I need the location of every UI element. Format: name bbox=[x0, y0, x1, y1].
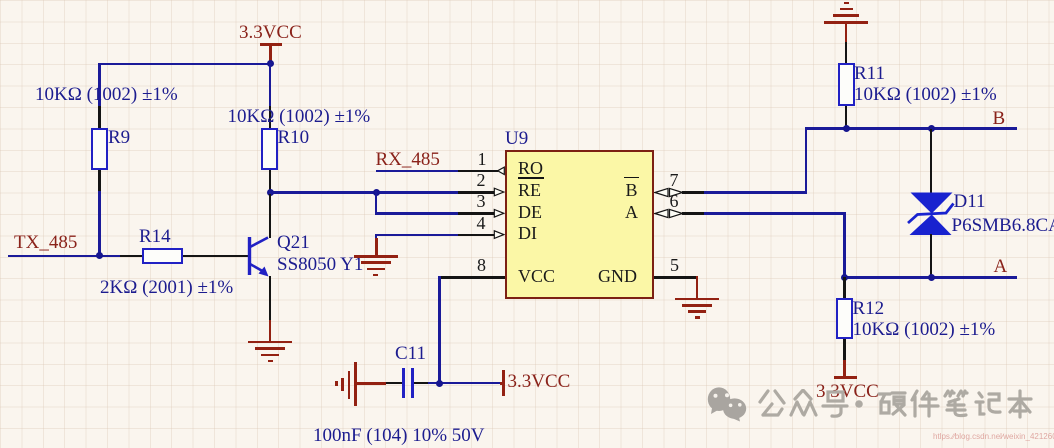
件 bbox=[912, 391, 938, 416]
pin 7 wire black stub bbox=[682, 191, 704, 194]
node junction TX wire / R9 column bbox=[96, 252, 103, 259]
硬 bbox=[879, 393, 905, 415]
wire R9 column lower bbox=[98, 191, 101, 257]
resistor R10 bbox=[261, 128, 278, 171]
pin Q21 base bbox=[203, 255, 249, 258]
pin R14 left bbox=[120, 255, 142, 258]
pin D11 top lead bbox=[930, 129, 933, 193]
ground below Q21 bbox=[269, 320, 272, 341]
wire RO row bbox=[376, 170, 458, 173]
pin 6 wire black stub bbox=[682, 212, 704, 215]
node junction R11 / B line bbox=[843, 125, 850, 132]
· bbox=[855, 400, 863, 408]
watermark wechat icon bbox=[706, 384, 754, 424]
wire DE row bbox=[375, 212, 458, 215]
pin 1 RO (black pin line) bbox=[458, 170, 498, 173]
value label R11 10K bbox=[854, 85, 997, 105]
pin arrows left side of U9 bbox=[491, 162, 506, 243]
pin R9 top bbox=[98, 106, 101, 128]
op-amp U9 body (IC rectangle) bbox=[505, 150, 654, 299]
pin R9 bottom bbox=[98, 170, 101, 191]
wire vertical up to B line bbox=[805, 127, 808, 193]
pin R12 top bbox=[843, 277, 846, 298]
wire DI drop to ground bbox=[375, 234, 378, 239]
pin C11 right bbox=[414, 382, 428, 385]
node junction D11 / B line bbox=[928, 125, 935, 132]
pin number 2 bbox=[477, 171, 486, 190]
node junction R12 / A line bbox=[841, 274, 848, 281]
pin 5 GND wire bbox=[654, 276, 697, 279]
net label TX_485 bbox=[14, 233, 77, 253]
pin name B (overline) bbox=[626, 181, 638, 200]
node junction D11 / A line bbox=[928, 274, 935, 281]
ground (left of C11, rotated pointing left) bbox=[335, 381, 338, 386]
ground below DI bbox=[375, 238, 378, 256]
value label R10 10K bbox=[228, 107, 371, 127]
公 bbox=[760, 391, 784, 415]
pin R11 top bbox=[845, 42, 848, 63]
transistor Q21 bbox=[240, 228, 280, 284]
value label R9 10K bbox=[35, 85, 178, 105]
众 bbox=[791, 390, 816, 415]
wire TX_485 horizontal bbox=[8, 255, 121, 258]
power 3.3VCC (right of C11) bbox=[500, 382, 503, 385]
resistor R12 bbox=[836, 298, 853, 339]
pin number 1 bbox=[478, 150, 487, 169]
ground (top, above R11, inverted) bbox=[844, 2, 849, 5]
pin R12 bottom bbox=[843, 339, 846, 360]
wire net A horizontal bbox=[843, 276, 1017, 279]
node junction at 3.3VCC / R10 top bbox=[267, 60, 274, 67]
pin name DI bbox=[518, 224, 537, 243]
wire VCC column down to C11 bbox=[438, 276, 441, 384]
wire R10 column upper bbox=[269, 63, 272, 107]
wire ground to C11 (red then black) bbox=[356, 382, 386, 385]
pin name VCC bbox=[518, 267, 555, 286]
wire vertical down to A line bbox=[843, 212, 846, 278]
pin Q21 collector bbox=[269, 192, 272, 238]
wire pin6 to A corner bbox=[704, 212, 846, 215]
wire pin7 to B corner bbox=[704, 191, 807, 194]
pin 3 DE bbox=[458, 212, 494, 215]
watermark text 公众号·硬件笔记本 (drawn strokes) bbox=[756, 389, 1046, 422]
watermark small red url text bbox=[933, 432, 1054, 441]
wire DI row bbox=[375, 234, 458, 237]
pin 2 RE bbox=[458, 191, 494, 194]
resistor R9 bbox=[91, 128, 108, 171]
pin R10 bottom bbox=[269, 170, 272, 192]
pin name A bbox=[625, 203, 638, 222]
pin R11 bottom bbox=[845, 106, 848, 128]
resistor R11 bbox=[838, 63, 855, 106]
pin name RO bbox=[518, 159, 543, 178]
value label R12 10K bbox=[853, 320, 996, 340]
pin 8 VCC wire bbox=[439, 276, 505, 279]
capacitor C11 bbox=[402, 368, 405, 398]
node junction RE/DE split bbox=[373, 189, 380, 196]
笔 bbox=[945, 391, 967, 416]
net label B bbox=[993, 109, 1006, 129]
node junction R10 / RE wire / Q21 collector bbox=[267, 189, 274, 196]
resistor R14 bbox=[142, 248, 183, 264]
wire RE row from R10 junction to pin2 bbox=[269, 191, 458, 194]
pin 4 DI bbox=[458, 234, 494, 237]
pin name DE bbox=[518, 203, 542, 222]
pin 7 B: bidirectional arrows bbox=[654, 186, 684, 199]
value label C11 100nF bbox=[313, 426, 485, 446]
pin 6 A: bidirectional arrows bbox=[654, 207, 684, 220]
pin D11 bottom lead bbox=[930, 234, 933, 277]
pin R14 right bbox=[183, 255, 204, 258]
net label RX_485 bbox=[376, 150, 440, 170]
value label R14 2K bbox=[100, 278, 233, 298]
wire C11 to 3.3VCC bbox=[428, 382, 501, 385]
wire vertical RE to DE row bbox=[375, 191, 378, 214]
power 3.3VCC (top, above R10 column) bbox=[239, 23, 302, 43]
net label A bbox=[994, 257, 1008, 277]
power 3.3VCC (below R12) bbox=[843, 360, 846, 376]
pin number 4 bbox=[477, 214, 486, 233]
wire top horizontal from R9 column to R10 column bbox=[98, 63, 271, 66]
node junction C11 / VCC column bbox=[436, 380, 443, 387]
记 bbox=[976, 393, 1000, 414]
本 bbox=[1009, 391, 1031, 417]
wire net B horizontal bbox=[805, 127, 1017, 130]
pin Q21 emitter bbox=[269, 276, 272, 320]
ground below pin 5 bbox=[696, 276, 699, 298]
pin name GND bbox=[598, 267, 637, 286]
pin R10 top bbox=[269, 106, 272, 128]
号 bbox=[823, 392, 847, 416]
wire R9 column upper bbox=[98, 63, 101, 107]
diode D11 (bidirectional TVS) bbox=[907, 189, 957, 239]
pin name RE (overline) bbox=[518, 181, 541, 200]
pin number 3 bbox=[477, 192, 486, 211]
